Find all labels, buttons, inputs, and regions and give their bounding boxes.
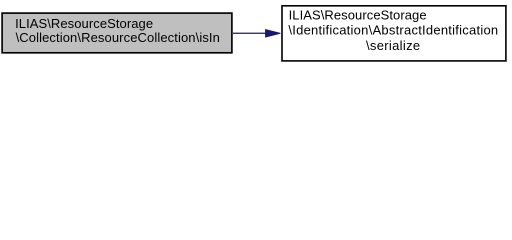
- svg-text:ILIAS\ResourceStorage: ILIAS\ResourceStorage: [289, 7, 427, 22]
- node caller box ILIAS\ResourceStorage\Collection\ResourceCollection\isIn: [2, 13, 232, 53]
- svg-text:\serialize: \serialize: [366, 38, 421, 53]
- svg-text:\Collection\ResourceCollection: \Collection\ResourceCollection\isIn: [16, 30, 220, 45]
- node callee box ILIAS\ResourceStorage\Identification\AbstractIdentification\serialize: [282, 6, 506, 61]
- svg-text:ILIAS\ResourceStorage: ILIAS\ResourceStorage: [15, 16, 153, 31]
- svg-text:\Identification\AbstractIdenti: \Identification\AbstractIdentification: [288, 23, 498, 38]
- wire call edge: [233, 30, 280, 37]
